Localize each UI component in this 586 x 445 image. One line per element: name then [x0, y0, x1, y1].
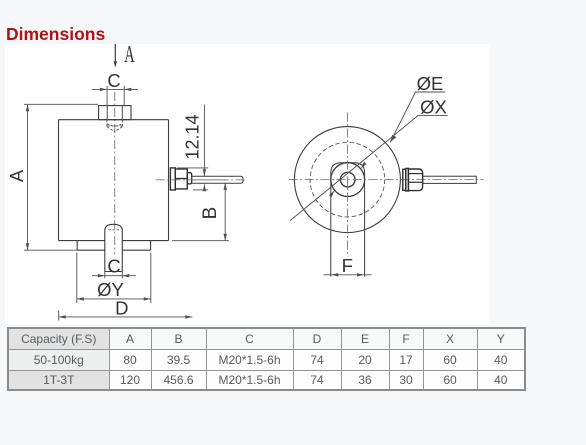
F dimension: [324, 273, 372, 276]
outer circle: [294, 127, 400, 233]
ØE leader: [390, 92, 445, 142]
bolt circle (dashed): [310, 142, 385, 217]
cable (top view): [423, 176, 477, 183]
hidden drill cone: [107, 120, 123, 132]
svg-text:ØE: ØE: [417, 73, 444, 94]
C extension lines: [106, 86, 108, 106]
thread lines: [107, 106, 122, 120]
ring circle: [331, 163, 365, 197]
hole circle: [340, 172, 355, 187]
stud extension lines below: [105, 272, 123, 279]
vertical centerline: [346, 113, 348, 257]
top threaded boss: [99, 106, 131, 120]
D dimension: [59, 311, 193, 321]
A dimension (left): [24, 104, 98, 250]
svg-text:C: C: [107, 70, 120, 91]
svg-text:B: B: [200, 207, 221, 220]
svg-text:A: A: [6, 169, 27, 182]
svg-text:F: F: [342, 255, 353, 276]
boss with rounded top: [331, 163, 365, 277]
main diagonal / ØX leader: [290, 115, 448, 220]
svg-text:C: C: [107, 256, 120, 277]
vertical centerline of body: [114, 92, 116, 255]
svg-text:D: D: [115, 298, 128, 319]
C bottom dimension line: [92, 274, 136, 277]
C top dimension line with arrows: [92, 86, 138, 106]
bottom stud (bullet): [105, 224, 123, 271]
section arrow A line: [114, 44, 117, 68]
svg-text:12.14: 12.14: [182, 114, 202, 159]
white drawing area: [5, 44, 490, 324]
data table: [7, 327, 526, 391]
ring diameter arrows: [329, 190, 335, 197]
connector flange: [170, 168, 191, 190]
stud hidden detail: [109, 229, 120, 231]
connector (top view): [403, 168, 423, 191]
B dimension: [172, 183, 229, 241]
title: [6, 24, 105, 45]
pedestal: [76, 241, 78, 251]
ØY dimension: [77, 253, 151, 304]
svg-text:A: A: [124, 42, 135, 69]
12.14 dimension: [177, 105, 208, 192]
cable centerline: [156, 179, 247, 181]
horizontal centerline: [289, 179, 484, 181]
cable (side view): [192, 176, 244, 183]
body outline: [59, 120, 169, 251]
svg-text:ØX: ØX: [420, 97, 447, 118]
